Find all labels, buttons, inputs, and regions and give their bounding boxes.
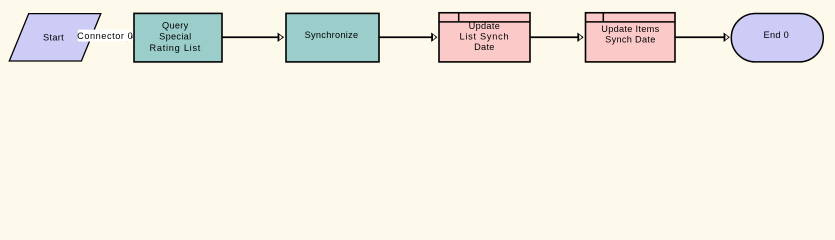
step box Synchronize	[286, 13, 379, 62]
operation box Update Items Synch Date	[586, 13, 676, 62]
wire Synchronize to Update List Synch Date	[379, 36, 437, 38]
end shape End 0 (stadium)	[731, 14, 823, 62]
svg-text:Synchronize: Synchronize	[305, 30, 359, 40]
header line	[586, 21, 676, 23]
svg-text:Date: Date	[474, 42, 495, 52]
svg-text:Rating List: Rating List	[149, 43, 201, 53]
svg-text:Synch Date: Synch Date	[605, 35, 656, 45]
arrowhead into Query Special Rating List	[127, 33, 133, 42]
connector label Connector 0	[78, 30, 131, 42]
start shape Start (parallelogram)	[9, 14, 101, 61]
wire Query to Synchronize	[222, 36, 284, 38]
svg-text:End 0: End 0	[764, 30, 790, 40]
svg-text:Update: Update	[469, 21, 500, 31]
wire Update Items to End	[675, 36, 724, 38]
svg-text:List Synch: List Synch	[459, 32, 509, 42]
header divider	[458, 13, 460, 22]
step box Query Special Rating List	[134, 13, 222, 62]
header divider	[602, 13, 604, 22]
header line	[439, 21, 530, 23]
arrowhead into Update Items Synch Date	[577, 33, 583, 42]
arrowhead into Update List Synch Date	[431, 33, 437, 42]
wire connector Start to Query	[91, 36, 131, 38]
svg-text:Query: Query	[162, 20, 189, 30]
svg-text:Update Items: Update Items	[601, 24, 659, 34]
arrowhead into Synchronize	[278, 33, 284, 42]
arrowhead into End 0	[724, 33, 730, 42]
wire Update List to Update Items	[530, 36, 583, 38]
svg-text:Special: Special	[159, 32, 191, 42]
operation box Update List Synch Date	[439, 13, 530, 62]
svg-text:Connector 0: Connector 0	[77, 31, 133, 41]
svg-text:Start: Start	[43, 32, 64, 42]
